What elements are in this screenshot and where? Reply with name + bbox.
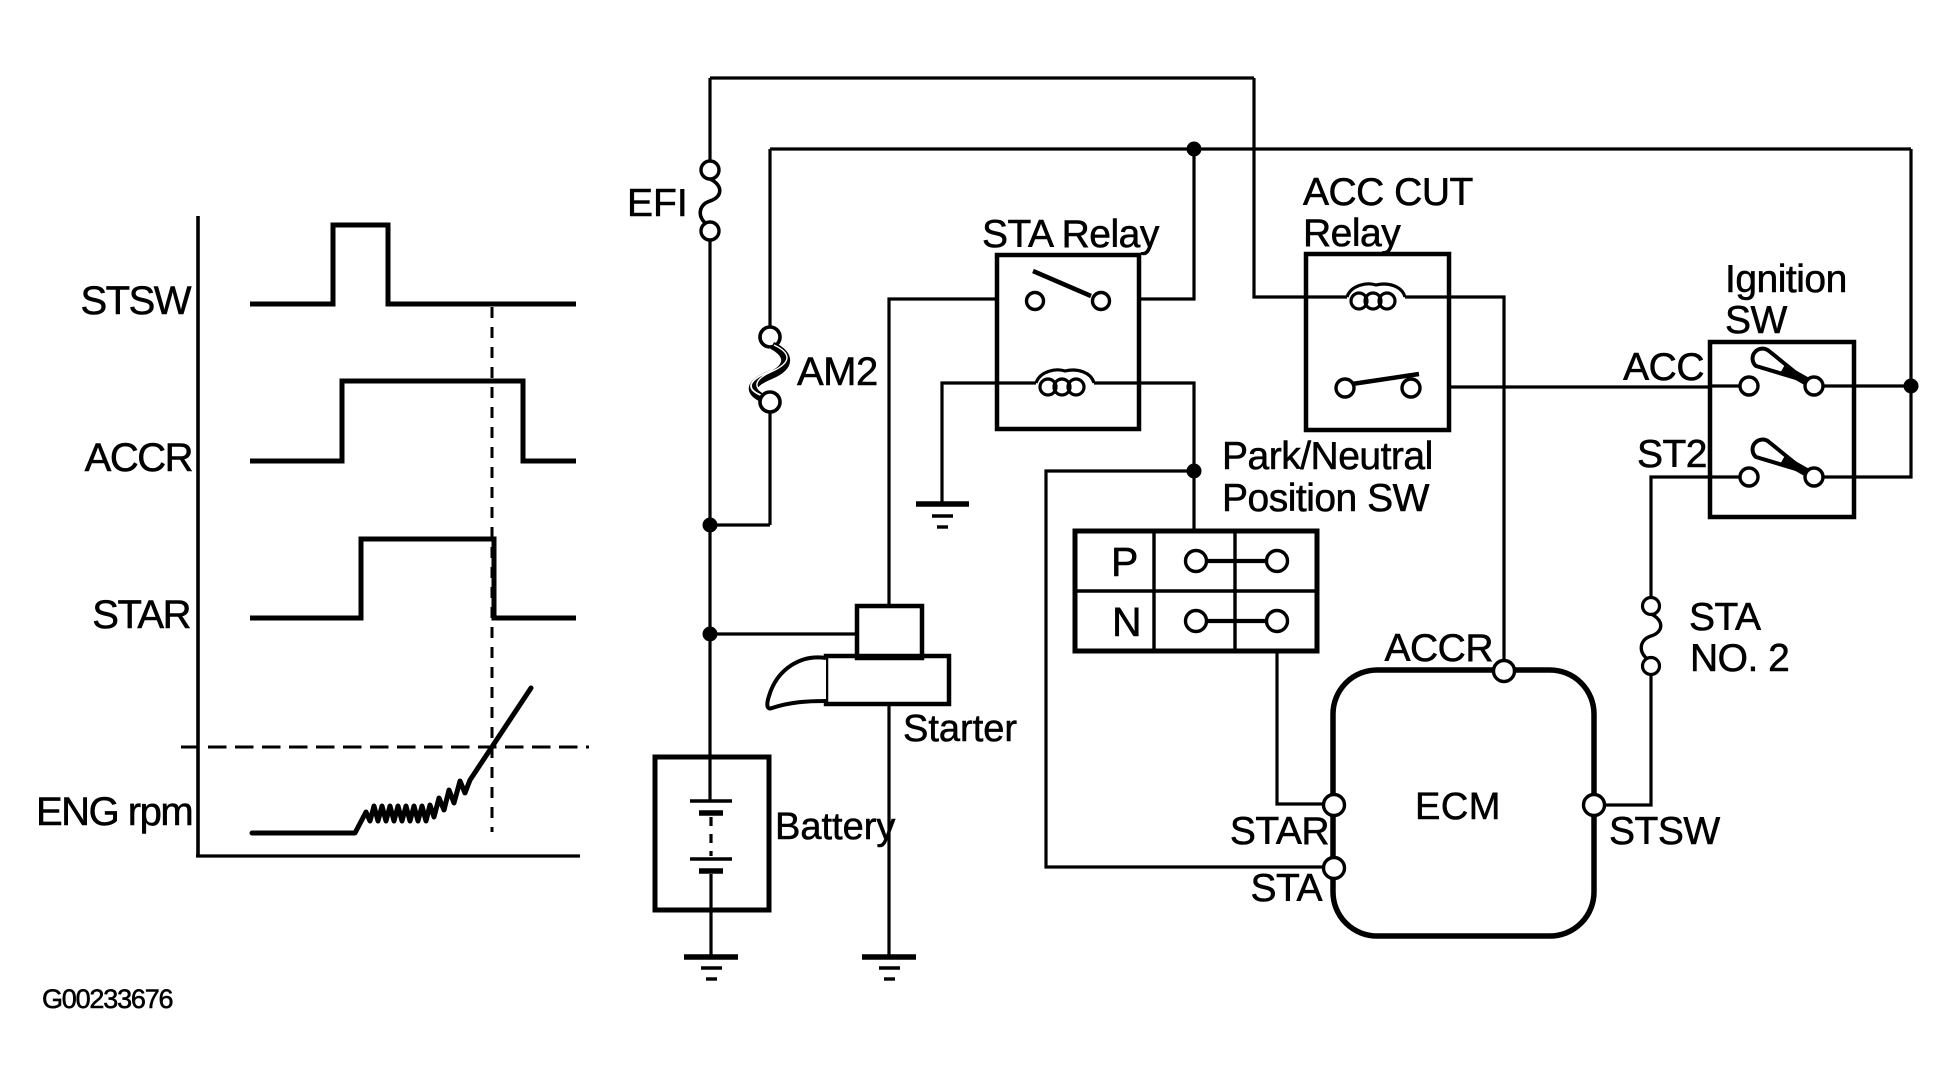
terminal STSW (1584, 795, 1605, 816)
wire: right bus down from AM2 feed (1909, 149, 1912, 386)
starter solenoid (857, 606, 922, 658)
park/neutral switch box (1075, 531, 1317, 651)
svg-text:STA Relay: STA Relay (982, 213, 1160, 256)
wire: branch to starter solenoid (710, 632, 857, 635)
ignition switch box (1710, 342, 1854, 517)
starter pinion nose (767, 657, 826, 708)
junction AM2 feed / STA relay (1187, 142, 1202, 157)
ignition ACC contacts (1710, 377, 1854, 395)
wire: ignition ACC output to right bus (1854, 384, 1911, 387)
battery cells (690, 758, 732, 957)
junction park/neutral feed (1187, 464, 1202, 479)
timing chart vertical axis (196, 216, 200, 856)
N contacts (1186, 611, 1288, 632)
terminal STAR (1324, 795, 1345, 816)
svg-text:Relay: Relay (1303, 212, 1401, 255)
wire: top feed from EFI to ACC CUT relay branch (710, 76, 1254, 79)
wire: STA relay coil to park/neutral switch (1139, 383, 1194, 471)
wire: EFI vertical upper (708, 78, 711, 171)
wire: starter to ground (887, 704, 890, 957)
STA relay coil (997, 370, 1139, 395)
junction ACC bus (1904, 379, 1919, 394)
battery box (655, 757, 769, 910)
fuse EFI (700, 161, 720, 240)
svg-text:Battery: Battery (775, 806, 895, 848)
ground battery (684, 957, 738, 979)
ignition key ACC (1753, 349, 1806, 381)
svg-text:EFI: EFI (627, 182, 688, 225)
terminal STA (1324, 858, 1345, 879)
ECM box (1333, 670, 1594, 936)
dashed horizontal threshold line (181, 746, 589, 749)
ground STA relay coil (916, 504, 969, 527)
wire: ST2 output to STA NO.2 fuse (1651, 477, 1710, 606)
svg-text:ACCR: ACCR (1384, 627, 1493, 670)
svg-text:STSW: STSW (80, 279, 191, 323)
ACC CUT relay coil (1306, 284, 1449, 309)
svg-text:N: N (1112, 599, 1142, 645)
wire: top feed into ACC CUT relay coil (1254, 78, 1306, 297)
P/N switch inner dividers (1075, 531, 1317, 651)
ACC CUT relay box (1306, 254, 1449, 430)
STA relay switch (1027, 271, 1110, 310)
svg-text:STA: STA (1689, 596, 1761, 639)
svg-text:ST2: ST2 (1637, 433, 1707, 476)
STSW waveform (250, 225, 576, 304)
wire: ACC CUT relay coil to ECM ACCR (1449, 297, 1504, 671)
starter body (826, 656, 949, 704)
svg-text:Starter: Starter (903, 708, 1017, 750)
svg-text:ACCR: ACCR (85, 436, 193, 480)
dashed vertical cursor line (491, 307, 494, 832)
wire: STA relay switch input from starter branch (889, 299, 997, 606)
wire: AM2 horizontal feed to ignition switch (770, 147, 1911, 150)
svg-text:ACC: ACC (1623, 346, 1704, 389)
svg-text:NO. 2: NO. 2 (1690, 637, 1789, 680)
wire: STA relay coil to ground (942, 383, 997, 503)
svg-text:Park/Neutral: Park/Neutral (1222, 435, 1433, 478)
ignition ST2 contacts (1710, 468, 1854, 486)
P contacts (1186, 551, 1288, 572)
svg-text:STAR: STAR (1230, 810, 1329, 853)
svg-text:P: P (1111, 539, 1138, 585)
svg-text:AM2: AM2 (797, 350, 878, 394)
svg-text:ECM: ECM (1415, 786, 1501, 828)
svg-text:STSW: STSW (1609, 810, 1720, 853)
wire: ACC CUT relay switch to ignition SW ACC (1449, 385, 1710, 388)
wire: AM2 vertical lower (768, 412, 771, 525)
fuse STA NO.2 (1641, 598, 1661, 675)
svg-text:STA: STA (1251, 867, 1323, 910)
svg-text:Ignition: Ignition (1725, 258, 1847, 301)
ENG rpm waveform (252, 688, 531, 833)
svg-text:STAR: STAR (92, 593, 190, 637)
svg-text:ENG rpm: ENG rpm (36, 790, 192, 834)
svg-text:G00233676: G00233676 (42, 984, 173, 1014)
svg-text:Position SW: Position SW (1222, 477, 1430, 520)
STAR waveform (250, 539, 576, 618)
wire: EFI vertical lower to battery (708, 240, 711, 758)
wire: STA relay switch output from AM2 feed (1139, 149, 1194, 299)
wire: ACC bus to ST2 input (1854, 386, 1911, 477)
wire: junction to ECM STA (1046, 471, 1334, 867)
svg-text:ACC CUT: ACC CUT (1303, 171, 1473, 214)
ACCR waveform (250, 381, 576, 461)
ignition key ST2 (1753, 440, 1806, 472)
fuse AM2 (751, 327, 787, 412)
STA relay box (997, 255, 1139, 429)
junction EFI/AM2 (703, 518, 718, 533)
junction battery/starter branch (703, 627, 718, 642)
wire: AM2 joins EFI line (710, 523, 770, 526)
svg-text:SW: SW (1725, 299, 1788, 342)
ground starter (862, 957, 916, 979)
timing chart horizontal axis (196, 854, 580, 857)
terminal ACCR (1494, 661, 1515, 682)
ACC CUT relay switch (1336, 374, 1420, 397)
wire: AM2 vertical upper (768, 149, 771, 336)
wire: P/N switch to ECM STAR (1277, 651, 1334, 804)
wire: junction into P/N switch (1192, 471, 1195, 531)
wire: STA NO.2 fuse to ECM STSW (1594, 674, 1651, 805)
